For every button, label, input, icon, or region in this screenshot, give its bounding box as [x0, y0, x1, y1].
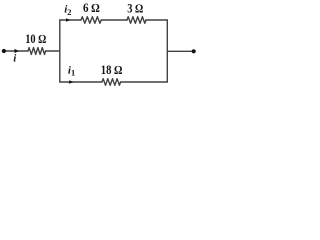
arrow: current i1 on bottom branch	[69, 80, 73, 84]
wire: right vertical junction line	[166, 20, 168, 82]
svg-text:i1: i1	[68, 65, 75, 78]
arrow: current i2 on top branch	[66, 18, 70, 22]
wire: R1 to left junction node	[46, 50, 60, 52]
wire: left vertical junction line	[59, 20, 61, 82]
wire: bottom branch lead to R4	[60, 81, 102, 83]
wire: top branch lead to R2	[60, 19, 81, 21]
svg-text:3 Ω: 3 Ω	[127, 1, 143, 15]
wire: main left wire from terminal to R1	[4, 50, 28, 52]
node: left terminal dot	[2, 49, 6, 53]
node: right terminal dot	[192, 49, 196, 53]
resistor R4 18ohm zigzag	[102, 79, 121, 86]
svg-text:i2: i2	[64, 4, 71, 18]
resistor R3 3ohm zigzag	[127, 17, 146, 24]
svg-text:6 Ω: 6 Ω	[83, 1, 100, 15]
wire: R2 to R3	[101, 19, 127, 21]
wire: right node to right terminal	[167, 50, 192, 52]
resistor R2 6ohm zigzag	[81, 17, 101, 24]
svg-text:18 Ω: 18 Ω	[101, 63, 123, 77]
arrow: current i on main wire	[15, 49, 19, 53]
svg-text:10 Ω: 10 Ω	[25, 32, 46, 46]
svg-text:i: i	[13, 52, 17, 64]
wire: R4 to bottom-right corner	[121, 81, 168, 83]
wire: R3 to top-right corner	[146, 19, 167, 21]
resistor R1 10ohm zigzag	[28, 48, 46, 55]
